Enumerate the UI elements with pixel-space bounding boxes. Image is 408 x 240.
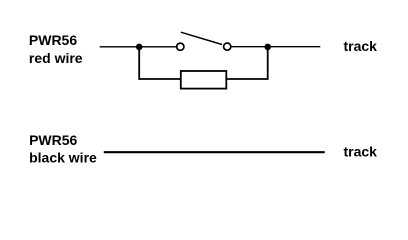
junction left (node) — [136, 44, 143, 51]
wire: left junction to switch contact — [139, 46, 176, 48]
wire: resistor right lead and right vertical drop — [226, 47, 267, 79]
wire: left vertical drop and resistor left lead — [139, 47, 181, 79]
svg-text:PWR56: PWR56 — [29, 32, 77, 48]
text: PWR56 red wire label — [29, 32, 83, 66]
wire: right junction to track — [268, 46, 321, 48]
switch S1 — [177, 32, 231, 50]
text: PWR56 black wire label — [29, 132, 97, 166]
svg-text:red wire: red wire — [29, 50, 83, 66]
resistor R1 — [181, 71, 227, 89]
junction right (node) — [264, 44, 271, 51]
svg-text:PWR56: PWR56 — [29, 132, 77, 148]
wire: black wire to track — [104, 151, 325, 153]
wire: switch to right junction — [231, 46, 267, 48]
svg-text:track: track — [344, 38, 378, 54]
svg-text:track: track — [344, 144, 378, 160]
wire: red feed from PWR56 to left junction — [100, 46, 140, 48]
svg-text:black wire: black wire — [29, 150, 97, 166]
